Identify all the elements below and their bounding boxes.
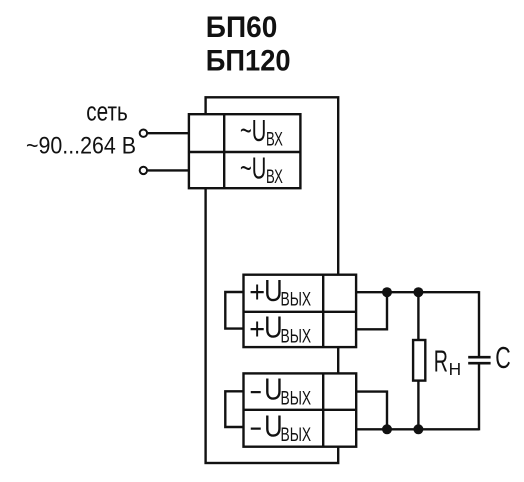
wire L2 bbox=[148, 169, 189, 171]
input terminal circle 1 bbox=[140, 130, 147, 137]
jumper wire left of +Uвых block bbox=[225, 292, 243, 329]
wire: resistor branch bottom bbox=[417, 381, 419, 430]
wire: capacitor branch top bbox=[478, 291, 480, 356]
wire L1 bbox=[148, 132, 189, 134]
junction dot bottom-right bbox=[413, 424, 423, 434]
svg-text:БП120: БП120 bbox=[206, 45, 291, 78]
output terminal block -Uвых bbox=[244, 373, 357, 446]
wire: +output bus (top) bbox=[356, 291, 479, 293]
svg-text:ВХ: ВХ bbox=[266, 130, 283, 151]
wire: resistor branch top bbox=[417, 292, 419, 340]
label ~Uвх (row 2) bbox=[240, 150, 283, 188]
label +Uвых (row 1) bbox=[249, 273, 311, 311]
svg-text:ВЫХ: ВЫХ bbox=[281, 326, 312, 347]
input terminal block X1 bbox=[189, 114, 301, 188]
svg-text:−: − bbox=[250, 374, 262, 409]
svg-text:−: − bbox=[250, 411, 262, 446]
jumper wire left of -Uвых block bbox=[225, 391, 243, 427]
junction dot bottom-left bbox=[382, 424, 392, 434]
jumper wire right of -Uвых row1 bbox=[356, 392, 387, 430]
output terminal block +Uвых bbox=[244, 275, 357, 347]
label ~Uвх (row 1) bbox=[240, 113, 283, 151]
label -Uвых (row 2) bbox=[250, 408, 311, 446]
svg-text:R: R bbox=[434, 343, 448, 378]
wire: capacitor branch bottom bbox=[478, 364, 480, 430]
svg-text:Н: Н bbox=[449, 359, 462, 379]
jumper wire right of +Uвых row2 bbox=[356, 292, 387, 329]
capacitor C plate 2 bbox=[468, 362, 490, 365]
svg-text:~U: ~U bbox=[240, 113, 266, 148]
power supply unit outline bbox=[206, 97, 339, 463]
svg-text:ВХ: ВХ bbox=[266, 167, 283, 188]
label +Uвых (row 2) bbox=[249, 310, 311, 348]
svg-text:ВЫХ: ВЫХ bbox=[281, 425, 312, 446]
svg-text:~90...264 В: ~90...264 В bbox=[26, 133, 136, 160]
svg-text:C: C bbox=[495, 340, 511, 375]
label Rн bbox=[434, 343, 461, 379]
junction dot top-right bbox=[413, 287, 423, 297]
svg-text:ВЫХ: ВЫХ bbox=[281, 388, 312, 409]
capacitor C plate 1 bbox=[468, 356, 490, 359]
svg-text:~U: ~U bbox=[240, 150, 266, 185]
svg-text:+: + bbox=[249, 311, 265, 346]
input terminal circle 2 bbox=[140, 167, 147, 174]
svg-text:+: + bbox=[249, 274, 265, 309]
svg-text:сеть: сеть bbox=[86, 97, 128, 127]
svg-text:ВЫХ: ВЫХ bbox=[281, 289, 312, 310]
resistor Rн body bbox=[413, 340, 425, 381]
label -Uвых (row 1) bbox=[250, 372, 311, 410]
svg-text:БП60: БП60 bbox=[206, 11, 277, 44]
wire: -output bus (bottom) bbox=[356, 428, 479, 430]
junction dot top-left bbox=[382, 287, 392, 297]
